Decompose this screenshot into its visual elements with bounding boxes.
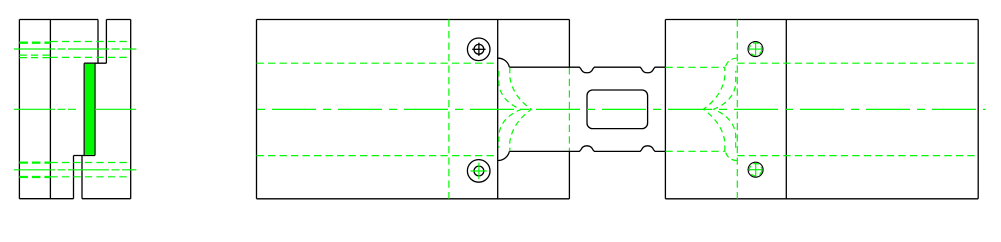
hidden pocket V-end outer chevron right xyxy=(703,68,725,151)
left view: top hole hidden line upper (right plates) xyxy=(50,41,130,43)
left view: specimen strip left border xyxy=(83,63,85,155)
left view: top hole hidden line lower (right plates) xyxy=(50,56,130,58)
hidden pocket V-end outer chevron left xyxy=(510,68,532,151)
hidden pocket V-end inner chevron left xyxy=(499,71,521,148)
hidden pocket V-end inner chevron right xyxy=(714,71,736,148)
right view main centerline xyxy=(251,108,985,110)
right view: left block inner edge lower xyxy=(568,151,570,198)
specimen shoulder fillet top-right hidden xyxy=(725,58,737,67)
right view: left block inner edge upper xyxy=(568,20,570,68)
left view: bottom hole hidden line lower (right plates) xyxy=(50,176,130,178)
specimen shoulder fillet bottom-left xyxy=(498,151,510,160)
left view: outer plate left edge xyxy=(18,20,20,199)
left view: top slot left wall xyxy=(97,20,99,64)
right view: top edge left block xyxy=(257,19,570,21)
left view: specimen strip green fill xyxy=(85,64,95,155)
left view: right edge xyxy=(130,20,132,199)
left view: top hole hidden line thick (left plate) xyxy=(19,42,50,44)
left view: specimen strip right border xyxy=(94,63,96,155)
left view: bottom hole hidden line upper (right plates) xyxy=(50,162,130,164)
specimen shoulder fillet top-left xyxy=(498,58,510,67)
specimen hidden top edge under right cover xyxy=(737,62,978,64)
hidden far cover plate edge right xyxy=(736,20,738,199)
specimen hidden bottom edge under right cover xyxy=(737,155,978,157)
left view: bottom hole hidden line thick upper (left plate) xyxy=(19,161,50,163)
left view: bottom edge left segment xyxy=(19,198,73,200)
left view: top edge right segment xyxy=(106,19,130,21)
specimen shoulder fillet bottom-right hidden xyxy=(725,151,737,160)
right view: top edge right block xyxy=(665,19,978,21)
left view: top hole hidden thin line b xyxy=(19,57,50,59)
left view: bottom slot left wall xyxy=(73,156,75,199)
screw S4 thread end (bottom-right) xyxy=(748,162,763,177)
specimen hidden neck top edge under right block xyxy=(665,66,725,68)
specimen neck top edge with notches xyxy=(509,67,665,73)
right view: right edge xyxy=(977,20,979,199)
specimen hidden top edge under left cover xyxy=(257,62,498,64)
hidden far cover plate edge left xyxy=(448,20,450,199)
right view: right cover plate edge xyxy=(785,20,787,199)
left view: bottom hole hidden line thick lower (left plate) xyxy=(19,176,50,178)
left view: bottom slot right wall xyxy=(81,156,83,199)
right view: bottom edge right block xyxy=(665,198,978,200)
left view: plate joint vertical xyxy=(49,20,51,199)
specimen neck bottom edge with notches xyxy=(509,146,665,152)
screw S3 thread end (top-right) xyxy=(748,42,763,57)
central hole rounded rectangle xyxy=(587,90,648,129)
left view: top screw centerline xyxy=(14,48,136,50)
left view: main centerline left segment xyxy=(14,108,76,110)
screw S1 head (top-left) xyxy=(467,38,490,61)
right view: left edge xyxy=(256,20,258,199)
right view: left cover plate edge xyxy=(497,20,499,199)
left view: top slot right wall xyxy=(105,20,107,64)
right view: right block inner edge xyxy=(664,20,666,199)
left view: top hole hidden thin line a xyxy=(19,54,50,56)
left view: top edge left segment xyxy=(19,19,98,21)
specimen hidden neck bottom edge under right block xyxy=(665,150,725,152)
left view: bottom shelf xyxy=(74,155,96,157)
right view: left block inner edge hidden middle xyxy=(568,67,570,151)
right view: bottom edge left block xyxy=(257,198,570,200)
left view: top shelf xyxy=(84,62,106,64)
specimen hidden bottom edge under left cover xyxy=(257,155,498,157)
left view: bottom screw centerline xyxy=(14,169,136,171)
left view: main centerline right segment xyxy=(95,108,136,110)
left view: bottom edge right segment xyxy=(82,198,131,200)
screw S2 head (bottom-left) xyxy=(467,160,490,183)
